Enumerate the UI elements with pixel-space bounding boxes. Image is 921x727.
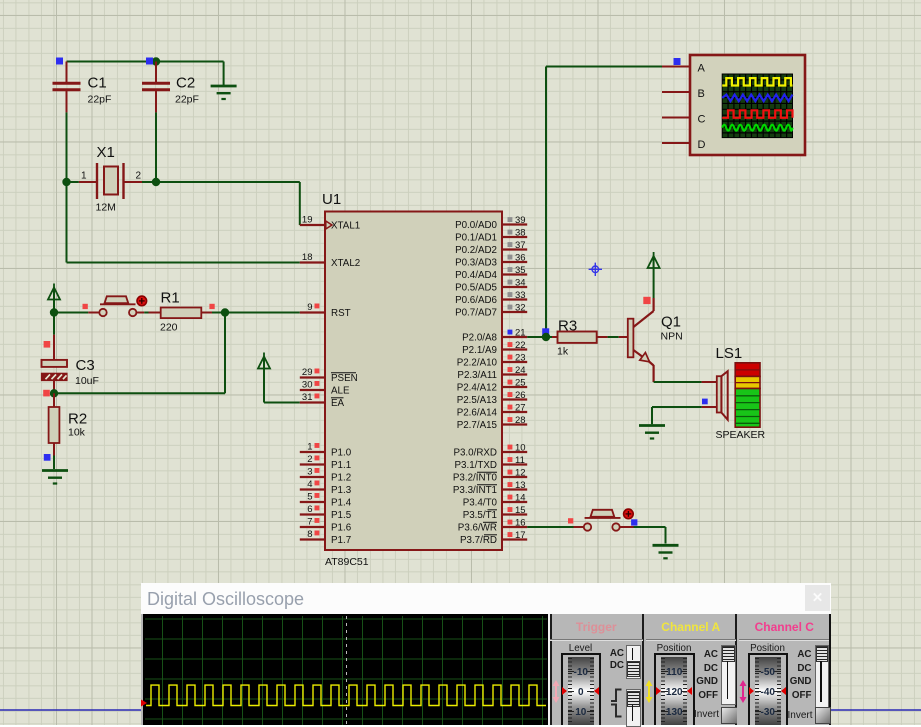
svg-text:D: D: [698, 139, 706, 151]
label C2 value 22pF: [175, 94, 199, 106]
gauge number ticks: [568, 671, 575, 672]
mini screen blue trace: [722, 95, 792, 102]
button SW2 red actuator: [624, 509, 634, 519]
blue marker at pin 21 junction: [542, 328, 549, 335]
wire C2 to crystal pin2: [155, 112, 157, 182]
wire X1 pin1 segment: [67, 181, 79, 183]
blue marker left of C1 top: [56, 58, 63, 65]
pin 30 ALE: [300, 380, 350, 397]
svg-text:AT89C51: AT89C51: [325, 556, 369, 568]
blue marker near C2 top junction: [146, 58, 153, 65]
wire X1 pin1 to XTAL2: [67, 182, 300, 263]
pin 29 PSEN: [300, 367, 358, 384]
pin 3 P1.2: [300, 467, 351, 484]
svg-text:5: 5: [307, 492, 312, 503]
svg-text:PSEN: PSEN: [331, 373, 358, 384]
junction dot RST net left: [50, 308, 58, 316]
oscilloscope window trigger panel: [550, 614, 644, 726]
svg-text:39: 39: [515, 215, 526, 226]
label Q1 NPN: [661, 331, 683, 343]
wire junction up to oscilloscope A: [546, 67, 662, 338]
svg-text:26: 26: [515, 390, 526, 401]
pin 21 P2.0/A8: [462, 328, 527, 344]
oscilloscope window: [141, 583, 831, 726]
pin 12 P3.2/INT0: [453, 468, 527, 484]
red marker at Q1 collector: [643, 297, 650, 304]
svg-text:NPN: NPN: [661, 331, 683, 343]
label C1: [88, 75, 107, 92]
svg-text:P3.0/RXD: P3.0/RXD: [453, 447, 497, 458]
svg-text:6: 6: [307, 504, 312, 515]
svg-text:15: 15: [515, 505, 526, 516]
svg-text:P0.4/AD4: P0.4/AD4: [455, 270, 497, 281]
pin 4 P1.3: [300, 479, 352, 496]
label R3 value 1k: [557, 346, 569, 358]
crystal X1: [79, 163, 142, 199]
svg-text:P0.5/AD5: P0.5/AD5: [455, 282, 497, 293]
svg-text:R1: R1: [161, 290, 180, 307]
ground below SW2: [653, 545, 679, 558]
gauge number ticks: [755, 671, 762, 672]
gauge colored arrow: [739, 680, 747, 703]
svg-text:A: A: [698, 63, 706, 75]
gauge red pointers: [562, 687, 567, 695]
scope yellow trace: [141, 583, 831, 726]
pin 22 P2.1/A9: [462, 340, 527, 356]
oscilloscope component body: [690, 55, 805, 155]
pin 27 P2.6/A14: [457, 403, 528, 419]
pin 28 P2.7/A15: [457, 415, 528, 431]
gauge frame: [561, 653, 602, 725]
svg-text:10uF: 10uF: [75, 375, 99, 387]
svg-text:10: 10: [515, 443, 526, 454]
pin 18 XTAL2: [300, 252, 360, 269]
label X1: [97, 144, 115, 161]
svg-text:35: 35: [515, 265, 526, 276]
svg-text:36: 36: [515, 253, 526, 264]
gauge red pointers: [656, 687, 661, 695]
svg-text:Q1: Q1: [661, 314, 681, 331]
wire speaker bottom to ground: [652, 407, 702, 424]
label AT89C51: [325, 556, 369, 568]
pin 15 P3.5/T1: [463, 505, 528, 521]
push button SW2: [584, 510, 621, 531]
gauge ticks: [755, 658, 759, 725]
label R1 value 220: [160, 322, 178, 334]
svg-text:24: 24: [515, 365, 526, 376]
pin 5 P1.4: [300, 492, 352, 509]
svg-text:ALE: ALE: [331, 385, 350, 396]
svg-text:X1: X1: [97, 144, 115, 161]
svg-text:7: 7: [307, 517, 312, 528]
capacitor C1: [53, 62, 81, 113]
label X1 pin 1: [81, 171, 87, 182]
wire button to R1: [136, 312, 148, 314]
svg-text:18: 18: [302, 252, 313, 263]
svg-text:2: 2: [136, 171, 142, 182]
wire X1 pin2 to XTAL1: [142, 182, 300, 225]
svg-text:P2.2/A10: P2.2/A10: [457, 357, 498, 368]
pin 25 P2.4/A12: [457, 378, 528, 394]
svg-text:C2: C2: [176, 75, 195, 92]
push button SW1: [99, 296, 136, 316]
svg-text:1: 1: [307, 442, 312, 453]
power arrow VCC at RST net: [48, 284, 60, 313]
svg-text:P3.3/INT1: P3.3/INT1: [453, 485, 497, 496]
svg-text:220: 220: [160, 322, 178, 334]
label C1 value 22pF: [88, 94, 112, 106]
resistor R2: [49, 393, 60, 469]
svg-text:32: 32: [515, 303, 526, 314]
pin 36 P0.3/AD3: [455, 253, 527, 269]
svg-text:P3.7/RD: P3.7/RD: [460, 535, 497, 546]
svg-text:P1.3: P1.3: [331, 485, 352, 496]
power arrow VCC at EA: [258, 353, 300, 403]
ground below R2: [42, 471, 68, 484]
svg-text:P1.2: P1.2: [331, 472, 351, 483]
gauge gradient: [755, 657, 781, 726]
pin 26 P2.5/A13: [457, 390, 528, 406]
svg-text:R2: R2: [68, 411, 87, 428]
gauge number ticks: [661, 671, 668, 672]
svg-text:27: 27: [515, 403, 526, 414]
svg-text:XTAL1: XTAL1: [331, 220, 360, 231]
svg-text:9: 9: [307, 302, 312, 313]
gauge frame: [748, 653, 789, 725]
sheet border line: [0, 709, 921, 711]
oscilloscope pin A: [662, 63, 706, 75]
svg-text:P2.4/A12: P2.4/A12: [457, 382, 497, 393]
svg-text:2: 2: [307, 454, 312, 465]
svg-text:C: C: [698, 114, 706, 126]
gauge numbers: [748, 667, 789, 678]
mini screen green trace: [722, 125, 792, 131]
svg-text:31: 31: [302, 392, 313, 403]
svg-text:37: 37: [515, 240, 526, 251]
svg-text:13: 13: [515, 480, 526, 491]
resistor R1: [149, 308, 213, 319]
svg-text:R3: R3: [558, 318, 577, 335]
svg-text:P2.7/A15: P2.7/A15: [457, 420, 498, 431]
svg-text:P0.0/AD0: P0.0/AD0: [455, 220, 497, 231]
label X1 value 12M: [96, 202, 116, 214]
pin 10 P3.0/RXD: [453, 443, 527, 459]
svg-text:22pF: 22pF: [88, 94, 112, 106]
red marker at C3 bottom junction: [43, 390, 50, 397]
svg-text:29: 29: [302, 367, 313, 378]
svg-text:P2.3/A11: P2.3/A11: [457, 370, 497, 381]
svg-text:23: 23: [515, 353, 526, 364]
blue marker on R2 ground lead: [44, 454, 51, 461]
blue marker near scope pin A: [674, 58, 681, 65]
gauge gradient: [661, 657, 687, 726]
label C2: [176, 75, 195, 92]
svg-text:P1.4: P1.4: [331, 497, 352, 508]
wire junction to C3: [53, 313, 55, 335]
svg-text:P0.7/AD7: P0.7/AD7: [455, 307, 497, 318]
svg-text:B: B: [698, 88, 705, 100]
transistor Q1: [619, 298, 654, 382]
pin 19 XTAL1: [300, 215, 360, 232]
gauge numbers: [654, 667, 695, 678]
svg-text:P1.6: P1.6: [331, 522, 352, 533]
junction dot RST-C3 branch: [221, 308, 229, 316]
mini screen yellow trace: [722, 78, 792, 85]
svg-text:10k: 10k: [68, 427, 86, 439]
junction dot X1 pin1: [62, 178, 70, 186]
gauge colored arrow: [645, 680, 653, 703]
svg-text:P2.5/A13: P2.5/A13: [457, 395, 498, 406]
svg-text:17: 17: [515, 530, 526, 541]
svg-text:P1.5: P1.5: [331, 510, 352, 521]
junction dot C3 bottom: [50, 389, 58, 397]
label LS1: [716, 345, 743, 362]
label X1 pin 2: [136, 171, 142, 182]
junction dot P2.0 net: [542, 333, 550, 341]
oscilloscope window channel C panel: [737, 614, 831, 726]
pin 8 P1.7: [300, 529, 351, 546]
speaker level bargraph: [735, 363, 760, 427]
label Q1: [661, 314, 681, 331]
pin 39 P0.0/AD0: [455, 215, 527, 231]
svg-text:P3.5/T1: P3.5/T1: [463, 510, 497, 521]
svg-text:4: 4: [307, 479, 312, 490]
scope dashed center line: [346, 616, 347, 726]
svg-text:21: 21: [515, 328, 526, 339]
scope screen grid: [145, 616, 547, 726]
wire P2.0 to junction: [527, 336, 546, 338]
oscilloscope pin D: [662, 139, 706, 151]
pin 2 P1.1: [300, 454, 351, 471]
junction dot C2 top: [152, 57, 160, 65]
red marker on P3.6 wire: [568, 518, 573, 523]
gauge ticks: [568, 658, 572, 725]
svg-text:SPEAKER: SPEAKER: [716, 429, 766, 441]
svg-text:22pF: 22pF: [175, 94, 199, 106]
pin 33 P0.6/AD6: [455, 290, 527, 306]
blue marker near SW2: [631, 519, 637, 525]
svg-text:1k: 1k: [557, 346, 569, 358]
pin 13 P3.3/INT1: [453, 480, 527, 496]
svg-text:1: 1: [81, 171, 87, 182]
window title text: [147, 589, 304, 610]
pin 7 P1.6: [300, 517, 352, 534]
pin 34 P0.5/AD5: [455, 278, 527, 294]
label R3: [558, 318, 577, 335]
wire R1 to RST pin: [212, 312, 300, 314]
svg-text:P1.0: P1.0: [331, 447, 352, 458]
window close button: [805, 585, 830, 612]
svg-text:P3.2/INT0: P3.2/INT0: [453, 472, 498, 483]
svg-text:P0.3/AD3: P0.3/AD3: [455, 257, 497, 268]
pin 17 P3.7/RD: [460, 530, 527, 546]
svg-text:U1: U1: [322, 191, 341, 208]
window title bar: [141, 583, 831, 614]
svg-text:C1: C1: [88, 75, 107, 92]
label U1: [322, 191, 341, 208]
oscilloscope mini screen: [722, 74, 792, 138]
svg-text:12M: 12M: [96, 202, 116, 214]
svg-text:38: 38: [515, 228, 526, 239]
pin 9 RST: [300, 302, 351, 319]
label SPEAKER: [716, 429, 766, 441]
svg-text:8: 8: [307, 529, 312, 540]
wire Q1 emitter to speaker: [654, 381, 702, 383]
label R1: [161, 290, 180, 307]
svg-text:P0.2/AD2: P0.2/AD2: [455, 245, 497, 256]
svg-text:22: 22: [515, 340, 526, 351]
svg-text:12: 12: [515, 468, 526, 479]
pin 32 P0.7/AD7: [455, 303, 527, 319]
pin 24 P2.3/A11: [457, 365, 527, 381]
svg-text:11: 11: [515, 455, 525, 466]
oscilloscope window channel A panel: [644, 614, 738, 726]
pin 35 P0.4/AD4: [455, 265, 527, 281]
label R2 value 10k: [68, 427, 86, 439]
svg-text:14: 14: [515, 493, 526, 504]
microcontroller U1 body: [325, 212, 502, 551]
blue origin crosshair marker: [589, 263, 602, 276]
svg-text:EA: EA: [331, 398, 345, 409]
svg-text:16: 16: [515, 518, 526, 529]
svg-text:P0.1/AD1: P0.1/AD1: [455, 232, 497, 243]
svg-text:3: 3: [307, 467, 312, 478]
blue marker on speaker bottom wire: [702, 399, 708, 405]
svg-text:P2.1/A9: P2.1/A9: [462, 345, 497, 356]
wire RST branch down to C3 row: [54, 313, 225, 394]
svg-text:P1.7: P1.7: [331, 535, 351, 546]
pin 16 P3.6/WR: [458, 518, 527, 534]
svg-text:33: 33: [515, 290, 526, 301]
junction dot X1 pin2: [152, 178, 160, 186]
pin 23 P2.2/A10: [457, 353, 528, 369]
ground near C2: [211, 62, 237, 100]
svg-text:RST: RST: [331, 308, 351, 319]
gauge gradient: [568, 657, 594, 726]
svg-text:P3.4/T0: P3.4/T0: [463, 497, 498, 508]
svg-text:P3.6/WR: P3.6/WR: [458, 522, 497, 533]
pin 1 P1.0: [300, 442, 352, 459]
oscilloscope pin C: [662, 114, 706, 126]
label C3: [76, 357, 95, 374]
wire SW2 to ground: [620, 527, 666, 544]
mini screen red trace: [722, 110, 792, 118]
svg-text:P3.1/TXD: P3.1/TXD: [455, 460, 497, 471]
svg-text:19: 19: [302, 215, 313, 226]
scope screen frame: [143, 614, 548, 726]
gauge colored arrow: [552, 680, 560, 703]
pin 31 EA: [300, 392, 345, 409]
red marker on C3 top lead: [44, 341, 51, 348]
pin 38 P0.1/AD1: [455, 228, 527, 244]
wire P3.6 to button: [527, 526, 584, 528]
gauge red pointers: [749, 687, 754, 695]
svg-text:P0.6/AD6: P0.6/AD6: [455, 295, 497, 306]
gauge frame: [654, 653, 695, 725]
wire power to button: [54, 312, 99, 314]
scope right white strip: [548, 614, 550, 726]
speaker LS1: [702, 371, 728, 420]
svg-text:P2.0/A8: P2.0/A8: [462, 332, 497, 343]
resistor R3: [546, 332, 608, 343]
gauge numbers: [561, 667, 602, 678]
pin 37 P0.2/AD2: [455, 240, 527, 256]
red marker right of R1: [209, 304, 214, 309]
svg-text:P2.6/A14: P2.6/A14: [457, 407, 498, 418]
gauge ticks: [661, 658, 665, 725]
capacitor C3 electrolytic: [42, 335, 68, 394]
wire top C1-C2-ground net: [67, 61, 224, 63]
svg-text:LS1: LS1: [716, 345, 743, 362]
button red actuator: [137, 296, 147, 306]
svg-text:30: 30: [302, 380, 313, 391]
label R2: [68, 411, 87, 428]
pin 14 P3.4/T0: [463, 493, 528, 509]
wire C1 to crystal pin1: [66, 112, 68, 182]
svg-text:P1.1: P1.1: [331, 460, 351, 471]
capacitor C2: [142, 62, 170, 113]
pin 6 P1.5: [300, 504, 352, 521]
svg-text:34: 34: [515, 278, 526, 289]
svg-text:28: 28: [515, 415, 526, 426]
svg-text:XTAL2: XTAL2: [331, 258, 360, 269]
wire R3 to Q1 base: [608, 336, 619, 338]
label C3 value 10uF: [75, 375, 99, 387]
svg-text:C3: C3: [76, 357, 95, 374]
svg-text:25: 25: [515, 378, 526, 389]
power arrow VCC at Q1 collector: [648, 252, 660, 298]
red marker on RST wire left: [83, 304, 88, 309]
oscilloscope pin B: [662, 88, 705, 100]
pin 11 P3.1/TXD: [455, 455, 528, 471]
ground below speaker: [639, 426, 665, 439]
